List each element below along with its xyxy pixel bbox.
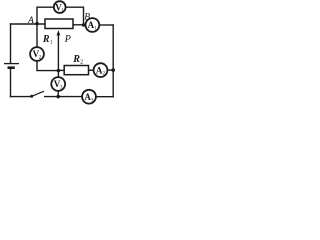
label R2 bbox=[72, 54, 83, 65]
battery bbox=[4, 64, 19, 68]
svg-text:P: P bbox=[64, 34, 71, 45]
wire V1 right lead bbox=[66, 7, 84, 25]
svg-text:1: 1 bbox=[50, 40, 53, 46]
node A bbox=[35, 22, 38, 25]
resistor R1 box bbox=[45, 19, 73, 29]
svg-text:R: R bbox=[42, 34, 50, 45]
wire right vertical bbox=[112, 24, 114, 97]
svg-text:R: R bbox=[72, 54, 80, 65]
wire switch to A3 bbox=[44, 96, 82, 98]
voltmeter V2 bbox=[30, 47, 44, 61]
wire V1 left lead bbox=[37, 7, 53, 23]
node bottom junction bbox=[56, 95, 60, 99]
ammeter A1 bbox=[86, 18, 100, 32]
ammeter A2 bbox=[94, 63, 108, 77]
wire R1 to node B bbox=[73, 24, 86, 26]
wire bottom-left to switch bbox=[10, 96, 31, 98]
wire left vertical lower bbox=[10, 68, 12, 98]
slider P arrow bbox=[57, 30, 61, 70]
wire junction to V3 bbox=[57, 71, 59, 78]
wire left vertical upper bbox=[10, 23, 12, 63]
wire top-left horizontal bbox=[10, 23, 45, 25]
voltmeter V3 bbox=[51, 77, 65, 91]
ammeter A3 bbox=[82, 90, 96, 104]
wire V3 to bottom bbox=[57, 91, 59, 97]
node P junction bbox=[57, 69, 61, 73]
wire A2 to right vertical bbox=[107, 69, 114, 71]
wire A3 to bottom-right corner bbox=[96, 96, 114, 98]
wire R2 to A2 bbox=[89, 69, 94, 71]
wire V2 top lead bbox=[36, 24, 38, 48]
wire A1 to right corner bbox=[99, 24, 114, 26]
switch S bbox=[30, 91, 44, 98]
svg-text:B: B bbox=[84, 11, 90, 22]
node right junction bbox=[111, 68, 115, 72]
svg-text:2: 2 bbox=[80, 60, 83, 66]
voltmeter V1 bbox=[54, 1, 66, 14]
wire V2 bottom lead bbox=[37, 61, 58, 71]
svg-text:A: A bbox=[27, 15, 34, 26]
node B bbox=[82, 23, 85, 26]
wire junction to R2 bbox=[58, 69, 64, 71]
resistor R2 box bbox=[64, 66, 88, 75]
label R1 bbox=[42, 34, 53, 46]
